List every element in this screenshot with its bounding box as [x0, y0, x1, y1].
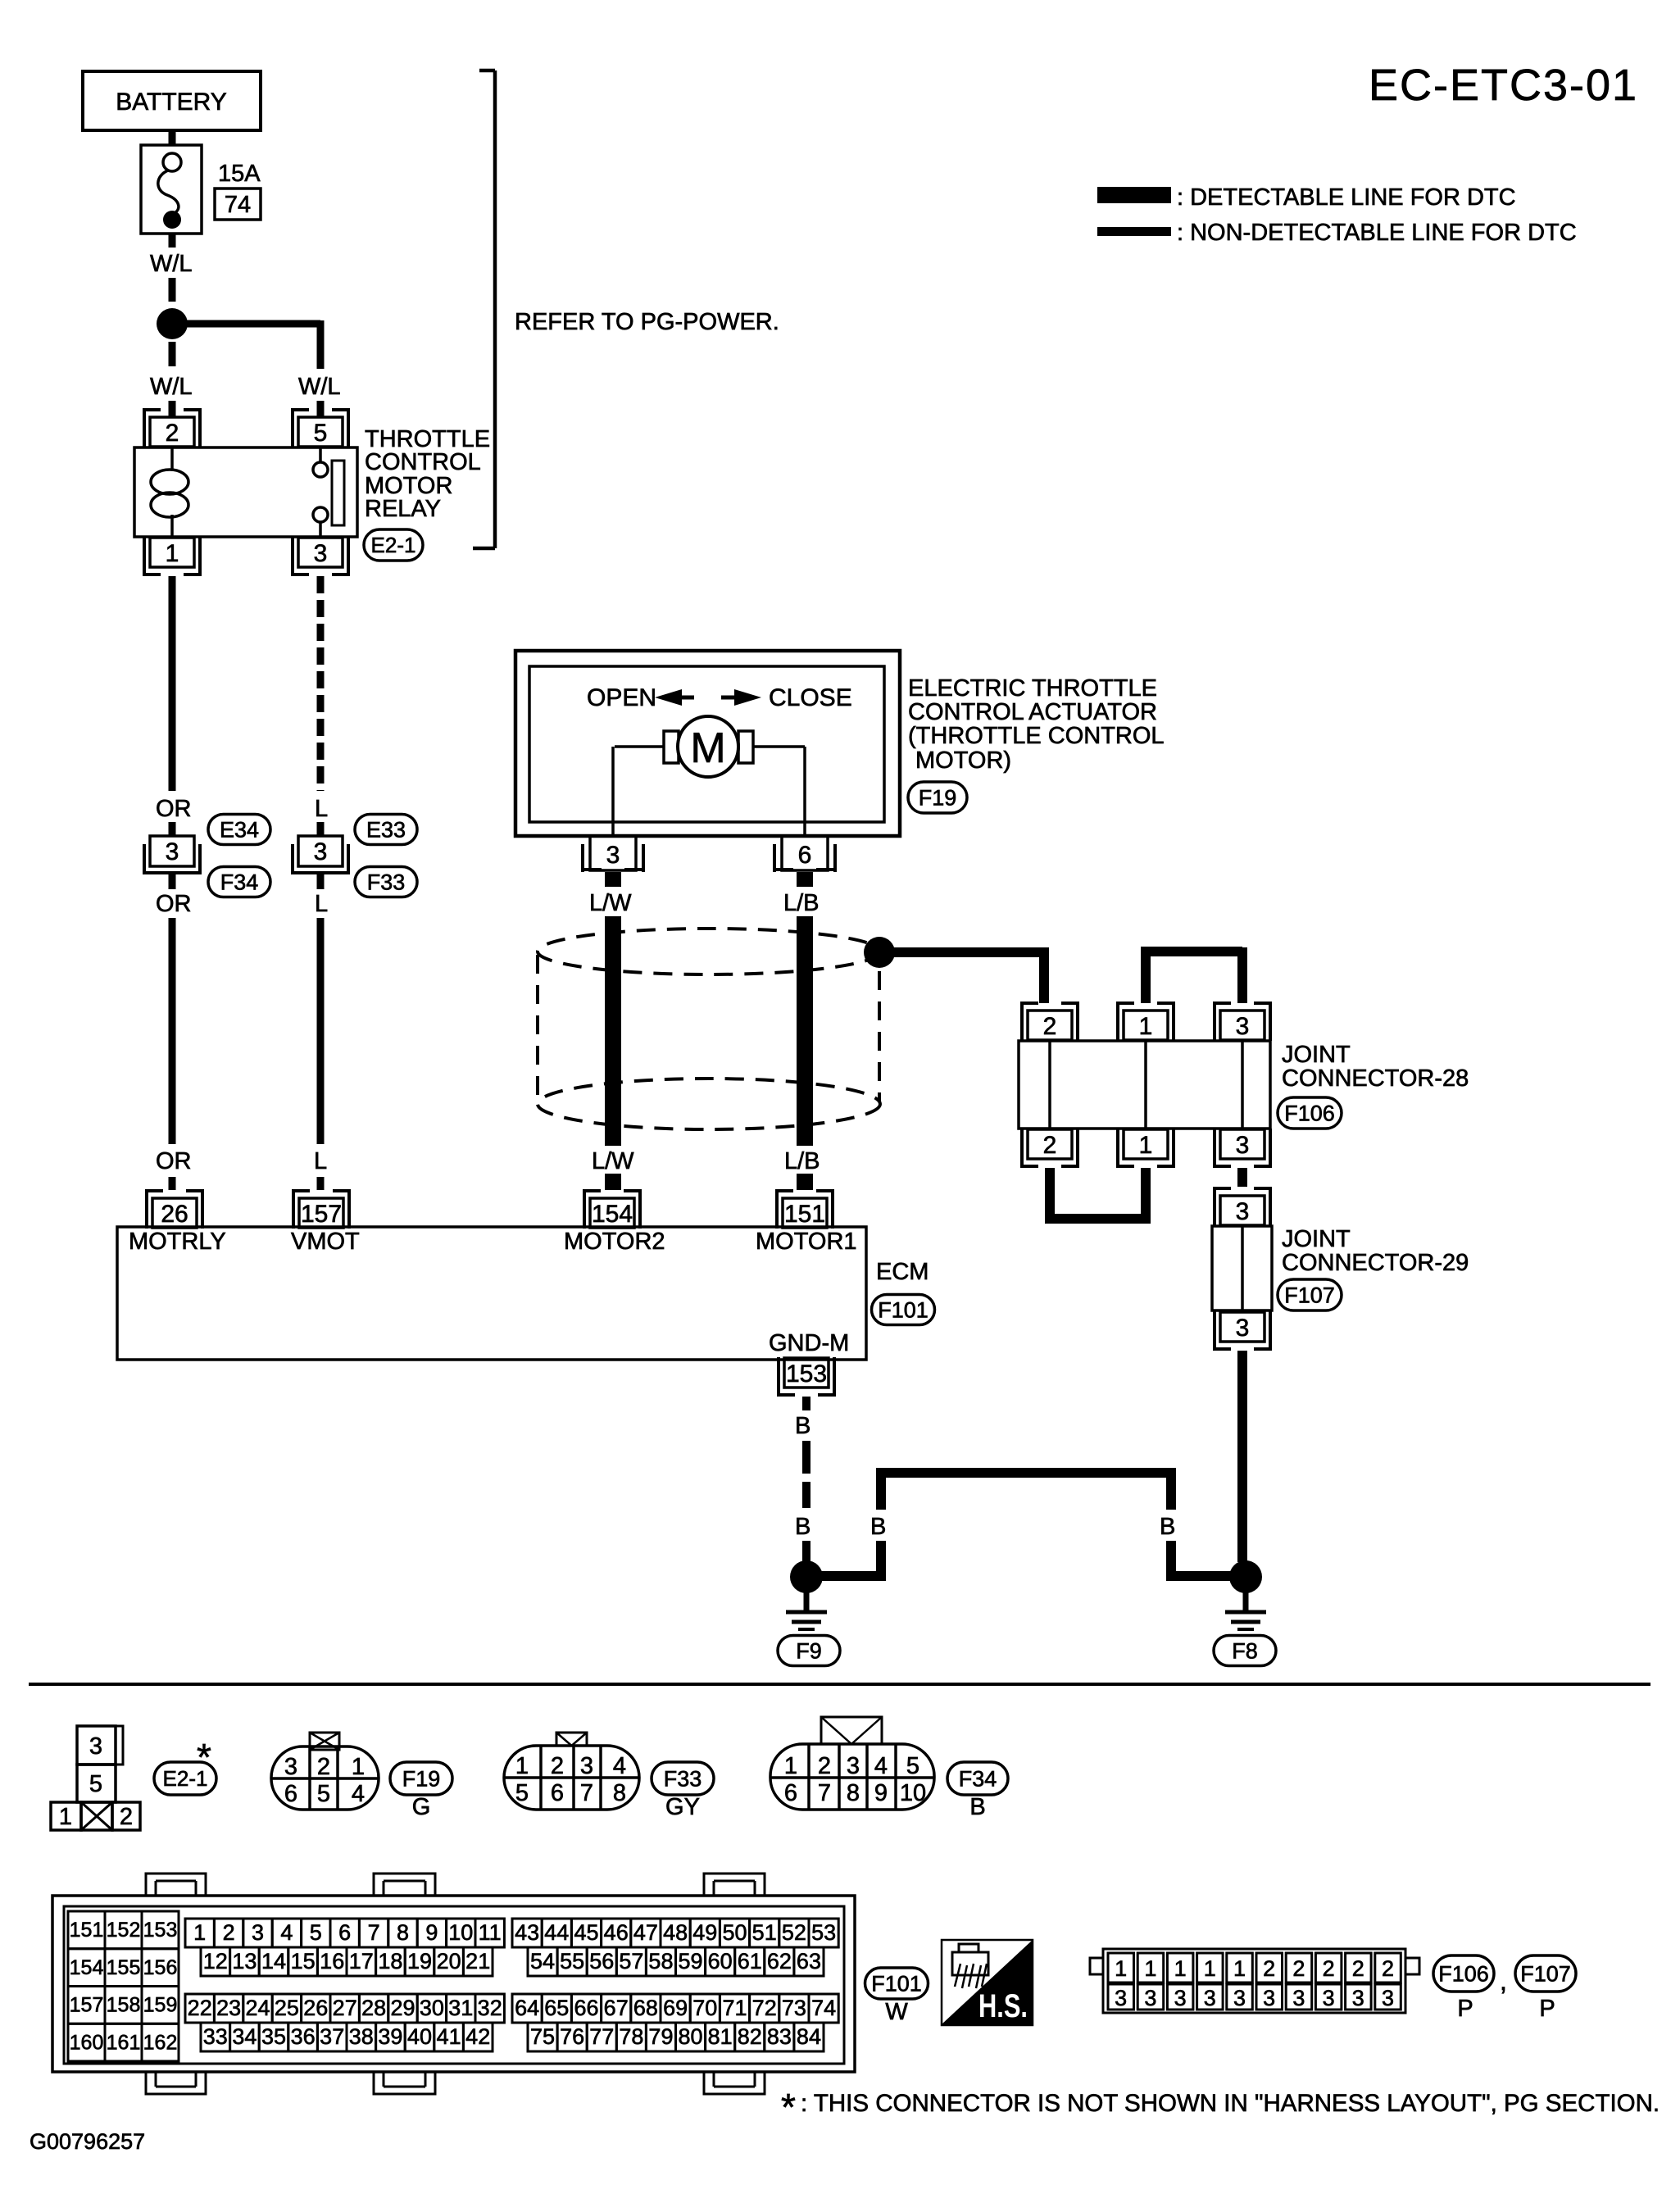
svg-text:23: 23 — [216, 1996, 241, 2020]
svg-text:F8: F8 — [1232, 1638, 1258, 1663]
wire joint connector-28 to joint connector-29 — [1237, 1168, 1247, 1187]
svg-text:3: 3 — [1236, 1132, 1250, 1159]
svg-text:66: 66 — [574, 1996, 598, 2020]
svg-text:3: 3 — [314, 838, 328, 865]
wire L relay 3 to connector E33 — [317, 576, 325, 791]
svg-text:74: 74 — [225, 192, 251, 218]
actuator terminal 6 — [782, 836, 828, 870]
svg-text:: THIS CONNECTOR IS NOT SHOWN: : THIS CONNECTOR IS NOT SHOWN IN "HARNES… — [801, 2090, 1660, 2117]
battery — [83, 71, 261, 130]
svg-text:CONNECTOR-28: CONNECTOR-28 — [1282, 1065, 1469, 1092]
svg-text:B: B — [1160, 1514, 1175, 1540]
svg-text:79: 79 — [648, 2024, 673, 2049]
svg-text:10: 10 — [448, 1920, 473, 1945]
svg-text:61: 61 — [738, 1949, 762, 1974]
svg-text:3: 3 — [1263, 1986, 1275, 2010]
wire OR relay 1 to connector E34 — [169, 576, 176, 791]
relay connector E2-1 pinout — [77, 1726, 116, 1765]
jumper joint connector-28 bottom terminals 2 and 1 — [1045, 1168, 1055, 1224]
svg-text:78: 78 — [619, 2024, 643, 2049]
svg-text:JOINT: JOINT — [1282, 1042, 1351, 1068]
svg-text:2: 2 — [1043, 1013, 1057, 1040]
ECM terminal 153 GND-M — [777, 1357, 780, 1397]
fuse 15A no.74 — [141, 145, 202, 234]
svg-text:82: 82 — [738, 2024, 762, 2049]
svg-text:75: 75 — [530, 2024, 555, 2049]
svg-text:20: 20 — [437, 1949, 461, 1974]
svg-text:40: 40 — [407, 2024, 432, 2049]
svg-text:B: B — [795, 1413, 810, 1439]
svg-text:F33: F33 — [367, 870, 406, 894]
svg-text:P: P — [1457, 1996, 1473, 2022]
joint connector-29 body F107 — [1212, 1226, 1272, 1310]
svg-text:*: * — [781, 2086, 796, 2128]
svg-text:: NON-DETECTABLE LINE FOR DTC: : NON-DETECTABLE LINE FOR DTC — [1177, 220, 1577, 246]
svg-text:3: 3 — [1236, 1013, 1250, 1040]
svg-text:41: 41 — [437, 2024, 461, 2049]
svg-text:3: 3 — [580, 1753, 593, 1779]
svg-text:3: 3 — [1292, 1986, 1305, 2010]
svg-text:P: P — [1539, 1996, 1555, 2022]
svg-text:67: 67 — [604, 1996, 629, 2020]
svg-text:MOTRLY: MOTRLY — [129, 1229, 226, 1255]
svg-text:F101: F101 — [871, 1971, 922, 1996]
svg-text:6: 6 — [798, 842, 812, 869]
wire W/L junction to relay terminal 5 — [182, 320, 320, 328]
svg-text:2: 2 — [1263, 1956, 1275, 1981]
svg-text:L: L — [315, 796, 328, 822]
svg-text:51: 51 — [752, 1920, 777, 1945]
svg-text:H.S.: H.S. — [978, 1988, 1028, 2024]
svg-text:F106: F106 — [1438, 1961, 1489, 1986]
svg-text:160: 160 — [70, 2031, 104, 2054]
svg-text:21: 21 — [465, 1949, 490, 1974]
svg-text:17: 17 — [349, 1949, 374, 1974]
svg-text:5: 5 — [314, 420, 328, 447]
svg-text:30: 30 — [420, 1996, 444, 2020]
svg-text:1: 1 — [59, 1804, 72, 1830]
svg-text:26: 26 — [161, 1201, 188, 1228]
ECM connector F101 pinout block — [146, 1874, 206, 1896]
svg-text:71: 71 — [722, 1996, 747, 2020]
connector F19 pinout — [271, 1746, 379, 1810]
svg-text:1: 1 — [1139, 1013, 1153, 1040]
svg-text:CONTROL: CONTROL — [365, 449, 481, 475]
svg-text:G00796257: G00796257 — [30, 2129, 145, 2154]
svg-text:84: 84 — [797, 2024, 821, 2049]
svg-text:9: 9 — [874, 1780, 888, 1806]
svg-text:70: 70 — [692, 1996, 717, 2020]
inline connector E33/F33 terminal 3 — [298, 836, 343, 866]
svg-text:W/L: W/L — [150, 374, 193, 400]
svg-text:59: 59 — [679, 1949, 703, 1974]
svg-text:W/L: W/L — [150, 251, 193, 277]
svg-text:45: 45 — [574, 1920, 598, 1945]
svg-text:16: 16 — [320, 1949, 344, 1974]
svg-text:CONTROL ACTUATOR: CONTROL ACTUATOR — [908, 699, 1157, 725]
svg-text:OPEN: OPEN — [587, 684, 656, 711]
svg-text:GY: GY — [665, 1794, 700, 1820]
svg-text:B: B — [795, 1514, 810, 1540]
wire B ECM 153 to ground F9 — [802, 1397, 810, 1410]
svg-text:,: , — [1500, 1966, 1507, 1996]
svg-text:RELAY: RELAY — [365, 496, 441, 522]
joint connector-29 terminal 3 top — [1213, 1187, 1216, 1226]
svg-text:65: 65 — [544, 1996, 569, 2020]
legend detectable line for DTC — [1097, 187, 1171, 203]
svg-text:CLOSE: CLOSE — [769, 684, 852, 711]
svg-text:F106: F106 — [1284, 1101, 1335, 1125]
svg-text:47: 47 — [633, 1920, 658, 1945]
svg-text:2: 2 — [120, 1804, 133, 1830]
ECM terminal 157 — [292, 1189, 295, 1229]
svg-text:53: 53 — [811, 1920, 836, 1945]
svg-text:3: 3 — [1115, 1986, 1127, 2010]
svg-text:L/W: L/W — [592, 1148, 634, 1174]
svg-text:F19: F19 — [402, 1766, 441, 1791]
svg-text:3: 3 — [284, 1754, 297, 1780]
svg-text:2: 2 — [1323, 1956, 1335, 1981]
svg-text:G: G — [412, 1794, 431, 1820]
svg-text:1: 1 — [784, 1753, 797, 1779]
svg-text:1: 1 — [193, 1920, 206, 1945]
svg-text:4: 4 — [352, 1781, 365, 1807]
svg-text:3: 3 — [1382, 1986, 1394, 2010]
separator line — [29, 1683, 1650, 1686]
svg-text:54: 54 — [530, 1949, 555, 1974]
svg-text:1: 1 — [1139, 1132, 1153, 1159]
svg-text:29: 29 — [390, 1996, 415, 2020]
svg-text:11: 11 — [479, 1920, 502, 1945]
svg-text:6: 6 — [284, 1781, 297, 1807]
ground node F8 — [1229, 1560, 1262, 1593]
svg-text:ELECTRIC THROTTLE: ELECTRIC THROTTLE — [908, 675, 1157, 702]
bracket refer to PG-POWER — [493, 70, 497, 548]
svg-text:42: 42 — [465, 2024, 490, 2049]
svg-text:27: 27 — [333, 1996, 357, 2020]
svg-text:E34: E34 — [220, 817, 259, 842]
svg-text:2: 2 — [1382, 1956, 1394, 1981]
connector F33 pinout — [504, 1746, 639, 1810]
svg-text:OR: OR — [156, 1148, 192, 1174]
svg-text:5: 5 — [89, 1771, 102, 1797]
svg-text:19: 19 — [407, 1949, 432, 1974]
svg-text:5: 5 — [515, 1780, 529, 1806]
svg-text:W: W — [885, 1999, 908, 2025]
svg-text:77: 77 — [589, 2024, 614, 2049]
svg-text:3: 3 — [1352, 1986, 1364, 2010]
svg-text:2: 2 — [166, 420, 179, 447]
svg-text:81: 81 — [708, 2024, 733, 2049]
svg-text:155: 155 — [107, 1956, 141, 1979]
svg-text:69: 69 — [663, 1996, 688, 2020]
svg-text:VMOT: VMOT — [291, 1229, 360, 1255]
connector label E2-1 — [364, 529, 423, 561]
wire W/L fuse to junction node — [169, 234, 176, 248]
wire B jumper F9 to F8 — [821, 1571, 881, 1581]
joint connector-28 terminal 2 bottom — [1020, 1129, 1024, 1168]
wire W/L junction to relay terminal 2 — [169, 342, 176, 366]
svg-text:158: 158 — [107, 1994, 141, 2017]
svg-text:15: 15 — [291, 1949, 316, 1974]
svg-text:6: 6 — [338, 1920, 351, 1945]
shield around L/W L/B wires — [538, 929, 880, 974]
svg-text:W/L: W/L — [298, 374, 341, 400]
svg-text:JOINT: JOINT — [1282, 1226, 1351, 1252]
wire L connector F33 to ECM terminal 157 — [317, 874, 325, 889]
wire OR connector F34 to ECM terminal 26 — [169, 874, 176, 889]
svg-text:10: 10 — [900, 1780, 926, 1806]
svg-text:F101: F101 — [878, 1297, 929, 1322]
svg-text:48: 48 — [663, 1920, 688, 1945]
svg-text:L/W: L/W — [589, 890, 632, 916]
svg-text:157: 157 — [301, 1201, 342, 1228]
wire battery to fuse — [169, 130, 176, 145]
svg-text:57: 57 — [619, 1949, 643, 1974]
joint connector-28 terminal 3 top — [1213, 1002, 1216, 1041]
wire joint connector-29 to ground F8 — [1237, 1351, 1247, 1562]
svg-text:14: 14 — [261, 1949, 286, 1974]
joint connector-28 terminal 1 top — [1116, 1002, 1119, 1041]
svg-text:50: 50 — [722, 1920, 747, 1945]
svg-text:33: 33 — [203, 2024, 228, 2049]
ECM terminal 154 — [583, 1189, 586, 1229]
svg-text:1: 1 — [352, 1754, 365, 1780]
svg-text:1: 1 — [515, 1753, 529, 1779]
svg-text:151: 151 — [784, 1201, 825, 1228]
svg-text:3: 3 — [1174, 1986, 1187, 2010]
svg-text:6: 6 — [551, 1780, 564, 1806]
ECM terminal 151 — [775, 1189, 779, 1229]
svg-text:12: 12 — [203, 1949, 228, 1974]
svg-text:3: 3 — [1233, 1986, 1246, 2010]
svg-text:3: 3 — [1204, 1986, 1216, 2010]
relay terminal 2 — [143, 408, 146, 447]
svg-text:2: 2 — [818, 1753, 831, 1779]
svg-text:5: 5 — [906, 1753, 919, 1779]
electric throttle control actuator F19 — [515, 651, 900, 836]
svg-text:3: 3 — [1236, 1315, 1250, 1342]
joint connector-28 terminal 1 bottom — [1116, 1129, 1119, 1168]
joint connector-29 terminal 3 bottom — [1213, 1311, 1216, 1351]
svg-text:3: 3 — [606, 842, 620, 869]
svg-text:L/B: L/B — [784, 1148, 820, 1174]
svg-text:73: 73 — [782, 1996, 806, 2020]
svg-text:68: 68 — [633, 1996, 658, 2020]
svg-text:39: 39 — [378, 2024, 402, 2049]
svg-text:1: 1 — [166, 540, 179, 567]
svg-text:34: 34 — [232, 2024, 257, 2049]
svg-text:24: 24 — [245, 1996, 270, 2020]
svg-text:7: 7 — [818, 1780, 831, 1806]
joint connector-28 terminal 3 bottom — [1213, 1129, 1216, 1168]
svg-text:2: 2 — [1352, 1956, 1364, 1981]
svg-text:ECM: ECM — [876, 1259, 929, 1285]
svg-text:55: 55 — [560, 1949, 584, 1974]
svg-text:MOTOR): MOTOR) — [915, 747, 1011, 774]
svg-text:60: 60 — [708, 1949, 733, 1974]
svg-text:9: 9 — [425, 1920, 438, 1945]
svg-text:153: 153 — [143, 1919, 178, 1942]
svg-text:1: 1 — [1204, 1956, 1216, 1981]
legend non-detectable line for DTC — [1097, 227, 1171, 236]
svg-text:E2-1: E2-1 — [371, 533, 416, 557]
svg-text:1: 1 — [1144, 1956, 1156, 1981]
relay terminal 1 — [143, 537, 146, 576]
svg-text:2: 2 — [223, 1920, 235, 1945]
H.S. hand symbol — [942, 1940, 1033, 2025]
joint connector-28 terminal 2 top — [1020, 1002, 1024, 1041]
svg-text:5: 5 — [310, 1920, 322, 1945]
svg-text:3: 3 — [1144, 1986, 1156, 2010]
svg-text:F9: F9 — [796, 1638, 822, 1663]
svg-text:43: 43 — [515, 1920, 539, 1945]
svg-text:OR: OR — [156, 891, 192, 917]
svg-text:2: 2 — [551, 1753, 564, 1779]
svg-text:37: 37 — [320, 2024, 344, 2049]
svg-text:F107: F107 — [1284, 1283, 1335, 1307]
svg-text:L/B: L/B — [783, 890, 820, 916]
svg-text:159: 159 — [143, 1994, 178, 2017]
svg-text:B: B — [969, 1794, 985, 1820]
svg-text:8: 8 — [613, 1780, 626, 1806]
svg-text:46: 46 — [604, 1920, 629, 1945]
svg-text:74: 74 — [811, 1996, 836, 2020]
svg-text:4: 4 — [613, 1753, 626, 1779]
svg-text:3: 3 — [89, 1733, 102, 1760]
svg-text:F34: F34 — [959, 1766, 997, 1791]
svg-text:BATTERY: BATTERY — [116, 89, 227, 116]
ground node F9 — [790, 1560, 823, 1593]
svg-text:32: 32 — [478, 1996, 502, 2020]
svg-text:3: 3 — [1236, 1198, 1250, 1225]
svg-text:F19: F19 — [919, 785, 957, 810]
svg-text:4: 4 — [280, 1920, 293, 1945]
svg-text:L: L — [315, 891, 328, 917]
svg-text:3: 3 — [1323, 1986, 1335, 2010]
svg-text:F34: F34 — [220, 870, 259, 894]
svg-text:7: 7 — [580, 1780, 593, 1806]
svg-text:36: 36 — [291, 2024, 316, 2049]
ECM terminal 26 — [145, 1189, 148, 1229]
svg-text:L: L — [314, 1148, 327, 1174]
svg-text:49: 49 — [692, 1920, 717, 1945]
svg-text:152: 152 — [107, 1919, 141, 1942]
svg-text:151: 151 — [70, 1919, 104, 1942]
svg-text:156: 156 — [143, 1956, 178, 1979]
wire L/B actuator 6 to ECM terminal 151 — [797, 872, 813, 887]
svg-text:1: 1 — [1233, 1956, 1246, 1981]
svg-text:3: 3 — [252, 1920, 264, 1945]
ground symbol F9 — [804, 1592, 810, 1613]
wire shield to joint connector-28 terminal 2 — [893, 947, 1044, 957]
svg-text:: DETECTABLE LINE FOR DTC: : DETECTABLE LINE FOR DTC — [1177, 184, 1516, 211]
svg-text:31: 31 — [448, 1996, 473, 2020]
svg-text:64: 64 — [515, 1996, 539, 2020]
relay terminal 5 — [291, 408, 294, 447]
svg-text:83: 83 — [767, 2024, 792, 2049]
svg-text:3: 3 — [847, 1753, 860, 1779]
throttle control motor relay — [134, 447, 357, 537]
svg-text:2: 2 — [317, 1754, 330, 1780]
svg-text:154: 154 — [70, 1956, 104, 1979]
svg-text:63: 63 — [797, 1949, 821, 1974]
wire L/W actuator 3 to ECM terminal 154 — [605, 872, 621, 887]
svg-text:1: 1 — [1174, 1956, 1187, 1981]
svg-text:157: 157 — [70, 1994, 104, 2017]
relay terminal 3 — [291, 537, 294, 576]
svg-text:22: 22 — [188, 1996, 212, 2020]
svg-text:18: 18 — [378, 1949, 402, 1974]
svg-text:F107: F107 — [1520, 1961, 1571, 1986]
svg-text:REFER TO PG-POWER.: REFER TO PG-POWER. — [515, 309, 779, 335]
svg-text:2: 2 — [1292, 1956, 1305, 1981]
joint connector F106/F107 pinout strip — [1090, 1958, 1103, 1974]
svg-text:8: 8 — [847, 1780, 860, 1806]
jumper joint connector-28 terminals 1 and 3 — [1141, 952, 1151, 1003]
svg-text:3: 3 — [166, 838, 179, 865]
svg-text:CONNECTOR-29: CONNECTOR-29 — [1282, 1250, 1469, 1276]
svg-text:OR: OR — [156, 796, 192, 822]
svg-text:GND-M: GND-M — [769, 1330, 849, 1356]
svg-text:B: B — [870, 1514, 886, 1540]
svg-text:MOTOR2: MOTOR2 — [564, 1229, 665, 1255]
svg-text:161: 161 — [107, 2031, 141, 2054]
ECM box F101 — [117, 1227, 866, 1360]
svg-text:13: 13 — [232, 1949, 257, 1974]
svg-text:25: 25 — [275, 1996, 299, 2020]
svg-text:8: 8 — [397, 1920, 409, 1945]
svg-text:MOTOR1: MOTOR1 — [756, 1229, 857, 1255]
svg-text:44: 44 — [544, 1920, 569, 1945]
svg-text:153: 153 — [786, 1360, 827, 1388]
svg-text:58: 58 — [648, 1949, 673, 1974]
svg-text:72: 72 — [752, 1996, 777, 2020]
actuator terminal 3 — [590, 836, 636, 870]
svg-text:5: 5 — [317, 1781, 330, 1807]
svg-text:62: 62 — [767, 1949, 792, 1974]
svg-text:26: 26 — [303, 1996, 328, 2020]
svg-text:7: 7 — [368, 1920, 380, 1945]
svg-text:15A: 15A — [218, 161, 261, 187]
svg-text:*: * — [197, 1736, 211, 1778]
junction node — [157, 308, 188, 339]
svg-text:3: 3 — [314, 540, 328, 567]
connector F34 pinout — [770, 1744, 934, 1810]
svg-text:28: 28 — [361, 1996, 386, 2020]
svg-text:162: 162 — [143, 2031, 178, 2054]
svg-text:1: 1 — [1115, 1956, 1127, 1981]
joint connector-28 body F106 — [1019, 1041, 1270, 1129]
svg-text:(THROTTLE CONTROL: (THROTTLE CONTROL — [908, 723, 1165, 749]
svg-text:F33: F33 — [664, 1766, 702, 1791]
svg-text:56: 56 — [589, 1949, 614, 1974]
motor M — [615, 745, 664, 748]
ground symbol F8 — [1243, 1592, 1249, 1613]
svg-text:76: 76 — [560, 2024, 584, 2049]
shield junction node — [864, 937, 895, 968]
svg-text:4: 4 — [874, 1753, 888, 1779]
svg-text:38: 38 — [349, 2024, 374, 2049]
svg-text:6: 6 — [784, 1780, 797, 1806]
svg-text:154: 154 — [592, 1201, 633, 1228]
svg-text:E33: E33 — [366, 817, 406, 842]
svg-text:52: 52 — [782, 1920, 806, 1945]
svg-text:M: M — [690, 724, 725, 772]
svg-text:EC-ETC3-01: EC-ETC3-01 — [1369, 61, 1638, 110]
svg-text:80: 80 — [679, 2024, 703, 2049]
svg-text:35: 35 — [261, 2024, 286, 2049]
